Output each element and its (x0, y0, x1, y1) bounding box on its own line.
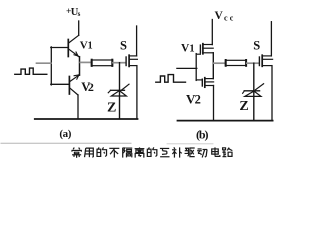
power Vcc label (215, 10, 234, 22)
MOSFET S (b) (259, 22, 272, 121)
svg-text:1: 1 (88, 41, 93, 52)
wire resistor to gate (grey) (113, 62, 126, 64)
transistor V1 (NPN) (68, 35, 79, 57)
output wire (b) (grey) (214, 62, 226, 64)
svg-text:(b): (b) (196, 127, 209, 141)
svg-text:1: 1 (189, 43, 194, 54)
power +Us label (66, 7, 81, 18)
svg-text:S: S (253, 38, 260, 52)
svg-text:Z: Z (107, 101, 116, 116)
zener tap vertical wire (b) (253, 63, 255, 120)
wire resistor to gate (b) (grey) (247, 62, 259, 64)
svg-text:V: V (80, 40, 88, 52)
svg-text:S: S (120, 39, 127, 53)
svg-text:Z: Z (239, 99, 248, 114)
MOSFET V1 (b) (196, 44, 213, 55)
output wire to resistor (grey) (80, 61, 91, 63)
base wire of V2 (51, 83, 69, 85)
svg-text:(a): (a) (59, 128, 71, 140)
input pulse waveform (a) (15, 68, 47, 74)
wire from +Us to V1 collector (78, 21, 80, 35)
svg-text:s: s (78, 10, 81, 18)
MOSFET V2 (b) (196, 78, 213, 121)
ground rail (b) (178, 120, 273, 122)
zener tap vertical wire (a) (119, 63, 121, 119)
node vertical wire between emitters (79, 57, 81, 75)
mid vertical wire (b) (212, 53, 214, 79)
bases vertical wire (50, 47, 52, 85)
transistor V2 (PNP) (69, 75, 79, 119)
MOSFET S (a) (126, 26, 137, 119)
ground rail (a) (35, 118, 138, 120)
input wire (grey) (37, 62, 51, 64)
resistor R (b) (225, 60, 246, 66)
base wire of V1 (51, 47, 68, 49)
gates vertical wire (b) (195, 54, 197, 81)
svg-text:V: V (215, 10, 224, 22)
Vcc wire (211, 20, 213, 45)
separator rule right segment (167, 143, 213, 145)
svg-text:2: 2 (88, 80, 94, 94)
resistor R (a) (91, 60, 112, 66)
zener diode Z (a) (108, 84, 129, 96)
separator rule left segment (1, 142, 131, 144)
zener diode Z (b) (243, 84, 264, 97)
svg-text:cc: cc (224, 13, 234, 22)
input pulse waveform (b) (156, 75, 186, 83)
caption: 常用的不隔离的互补驱动电路 (hand-drawn glyphs) (72, 147, 233, 157)
svg-text:2: 2 (195, 93, 201, 107)
input wire (b) (177, 67, 197, 69)
